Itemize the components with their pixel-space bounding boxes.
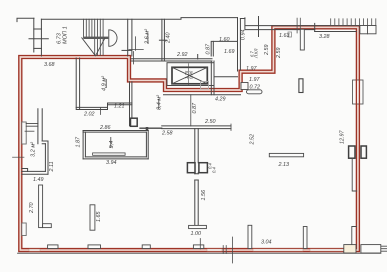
wall below red corner vertical	[130, 82, 132, 126]
stair direction arrow diagonals	[82, 38, 105, 56]
floating pilaster column	[299, 79, 303, 93]
svg-text:8,4 м²: 8,4 м²	[157, 94, 163, 110]
svg-text:1.87: 1.87	[76, 136, 82, 147]
wall rung	[34, 28, 42, 30]
closet partition horizontal 1.60	[212, 40, 238, 42]
door jamb at stairwell top	[240, 18, 245, 20]
partition bar 2.13	[269, 153, 303, 156]
top wall of stair block	[41, 18, 237, 20]
svg-text:6.7: 6.7	[250, 51, 255, 57]
end tick	[230, 124, 232, 131]
tick 3.04	[199, 239, 201, 250]
svg-text:3.04: 3.04	[261, 240, 272, 246]
T-foot of interior wall	[189, 225, 207, 228]
wall box right of top corner	[360, 26, 376, 34]
wall left-mid vertical	[76, 58, 79, 109]
stairwell right double wall	[237, 18, 239, 71]
elevator inner box with cross	[172, 67, 207, 84]
red unit outline (dark double edge)	[19, 26, 360, 252]
svg-text:1.97: 1.97	[249, 77, 260, 83]
svg-text:1.65: 1.65	[96, 211, 102, 222]
red unit outline (light inner band)	[20, 27, 358, 250]
partition stub A with foot	[39, 185, 43, 228]
wall line under red corridor	[164, 94, 241, 96]
staircase steps	[84, 19, 104, 55]
dimension tick	[99, 108, 101, 115]
wall 2.02 horizontal	[76, 107, 107, 109]
right wall pilaster	[353, 80, 364, 104]
outer wall stub top-left	[17, 18, 34, 21]
door box left of elevator wall	[201, 82, 209, 90]
svg-text:0.96: 0.96	[189, 70, 194, 79]
wall stub below top wall	[300, 29, 304, 50]
room A right double wall	[162, 19, 165, 61]
bottom right door box	[344, 245, 356, 253]
dimension tick	[29, 38, 48, 40]
svg-text:3.94: 3.94	[106, 160, 117, 166]
short wall right of elevator	[214, 76, 238, 78]
niche line lower	[352, 227, 357, 246]
svg-text:1.63: 1.63	[279, 33, 290, 39]
tick	[25, 130, 34, 132]
left wall pilaster lower	[22, 223, 26, 236]
notch step	[22, 169, 28, 172]
red band inner line	[22, 29, 357, 249]
tiny door box on top wall	[288, 32, 292, 37]
small shaft box at corridor	[131, 118, 138, 126]
svg-text:3.28: 3.28	[319, 34, 330, 40]
svg-text:2.50: 2.50	[204, 119, 216, 125]
stair half-turn arc	[109, 30, 117, 47]
svg-text:4.29: 4.29	[215, 97, 226, 103]
bottom stub C	[248, 225, 252, 248]
dimension tick at top wall	[258, 17, 260, 37]
corridor wall double part	[162, 126, 231, 129]
room A inner partition	[129, 37, 143, 51]
window sill inside room	[93, 153, 126, 155]
svg-text:1.69: 1.69	[224, 49, 235, 55]
svg-text:2.11: 2.11	[49, 161, 55, 172]
svg-text:1.97: 1.97	[246, 66, 257, 72]
svg-text:3.68: 3.68	[44, 62, 55, 68]
tick	[122, 49, 131, 51]
shaft box pair on interior wall	[187, 163, 195, 173]
tick above elevator wall	[197, 55, 199, 60]
hatching comb on top-right wall	[297, 18, 376, 33]
tick	[159, 39, 166, 41]
svg-text:1.60: 1.60	[219, 37, 230, 43]
stair landing bar	[84, 37, 108, 39]
vertical line 0.87	[190, 95, 192, 126]
door double line	[26, 124, 38, 127]
door leaf pill	[247, 90, 263, 94]
long survey line crossing bottom wall	[232, 237, 234, 263]
bottom stub D	[303, 227, 307, 249]
door jamb blob on corridor wall	[146, 127, 149, 130]
svg-text:2.70: 2.70	[29, 203, 35, 215]
elevator centre dimension line	[187, 64, 189, 86]
svg-text:2.86: 2.86	[99, 125, 111, 131]
stairwell top wall black lines	[245, 25, 376, 27]
black outer wall line, left side	[18, 252, 381, 254]
svg-text:0.4: 0.4	[212, 167, 217, 173]
svg-text:0.72: 0.72	[250, 85, 261, 91]
connector	[42, 141, 48, 144]
niche line upper	[352, 158, 357, 191]
svg-text:2.13: 2.13	[278, 162, 290, 168]
svg-text:1.49: 1.49	[33, 177, 44, 183]
long tick on left wall	[13, 156, 25, 158]
svg-text:2.59: 2.59	[264, 45, 270, 57]
room label divider bars	[106, 34, 159, 149]
door box 0.72	[241, 83, 248, 90]
interior long wall	[195, 129, 198, 226]
svg-text:3,2 м²: 3,2 м²	[31, 141, 37, 157]
wall 1.21 horizontal	[108, 103, 132, 105]
door jamb left of room A	[133, 52, 135, 65]
shaft boxes on right wall	[349, 146, 355, 158]
svg-text:0.94: 0.94	[240, 30, 246, 41]
svg-text:МОП 1: МОП 1	[63, 26, 69, 44]
ticks crossing bottom wall	[223, 246, 226, 254]
svg-text:2.59: 2.59	[276, 48, 282, 60]
svg-text:2.92: 2.92	[176, 52, 188, 58]
small room bottom wall	[22, 171, 48, 174]
room 9.4 walls	[83, 131, 148, 159]
stair block right double wall	[128, 19, 132, 56]
svg-text:1.21: 1.21	[114, 104, 125, 110]
wall tick pair	[297, 18, 300, 33]
elevator right double wall	[211, 61, 214, 95]
red band outer line	[19, 26, 360, 252]
step connector	[107, 103, 109, 110]
corridor wall single part	[140, 127, 162, 129]
wall piece right of corner	[361, 245, 381, 253]
svg-text:0.87: 0.87	[192, 102, 198, 113]
svg-text:2.58: 2.58	[161, 131, 173, 137]
small room right wall	[45, 141, 48, 174]
bottom wall pilaster bumps	[48, 245, 204, 249]
left wall pilaster upper	[22, 122, 26, 144]
partition stub B	[90, 205, 95, 230]
svg-text:0.87: 0.87	[206, 43, 212, 54]
svg-text:2.02: 2.02	[83, 112, 95, 118]
wall above elevator	[131, 59, 212, 61]
elevator shaft outer box	[167, 63, 214, 86]
left upper double wall	[33, 18, 35, 52]
bottom wall window inserts	[29, 249, 346, 251]
svg-text:6.73: 6.73	[57, 32, 63, 44]
hatch at far right	[381, 246, 386, 251]
svg-text:1.00: 1.00	[191, 231, 202, 237]
svg-text:12.97: 12.97	[340, 130, 346, 144]
closet partition vertical	[210, 41, 212, 56]
svg-text:9,4: 9,4	[109, 141, 115, 149]
small room wall vertical	[38, 109, 42, 144]
svg-text:1.56: 1.56	[201, 190, 207, 201]
wall rung	[34, 47, 42, 49]
svg-text:2.52: 2.52	[249, 134, 255, 146]
svg-text:2.40: 2.40	[166, 33, 172, 45]
